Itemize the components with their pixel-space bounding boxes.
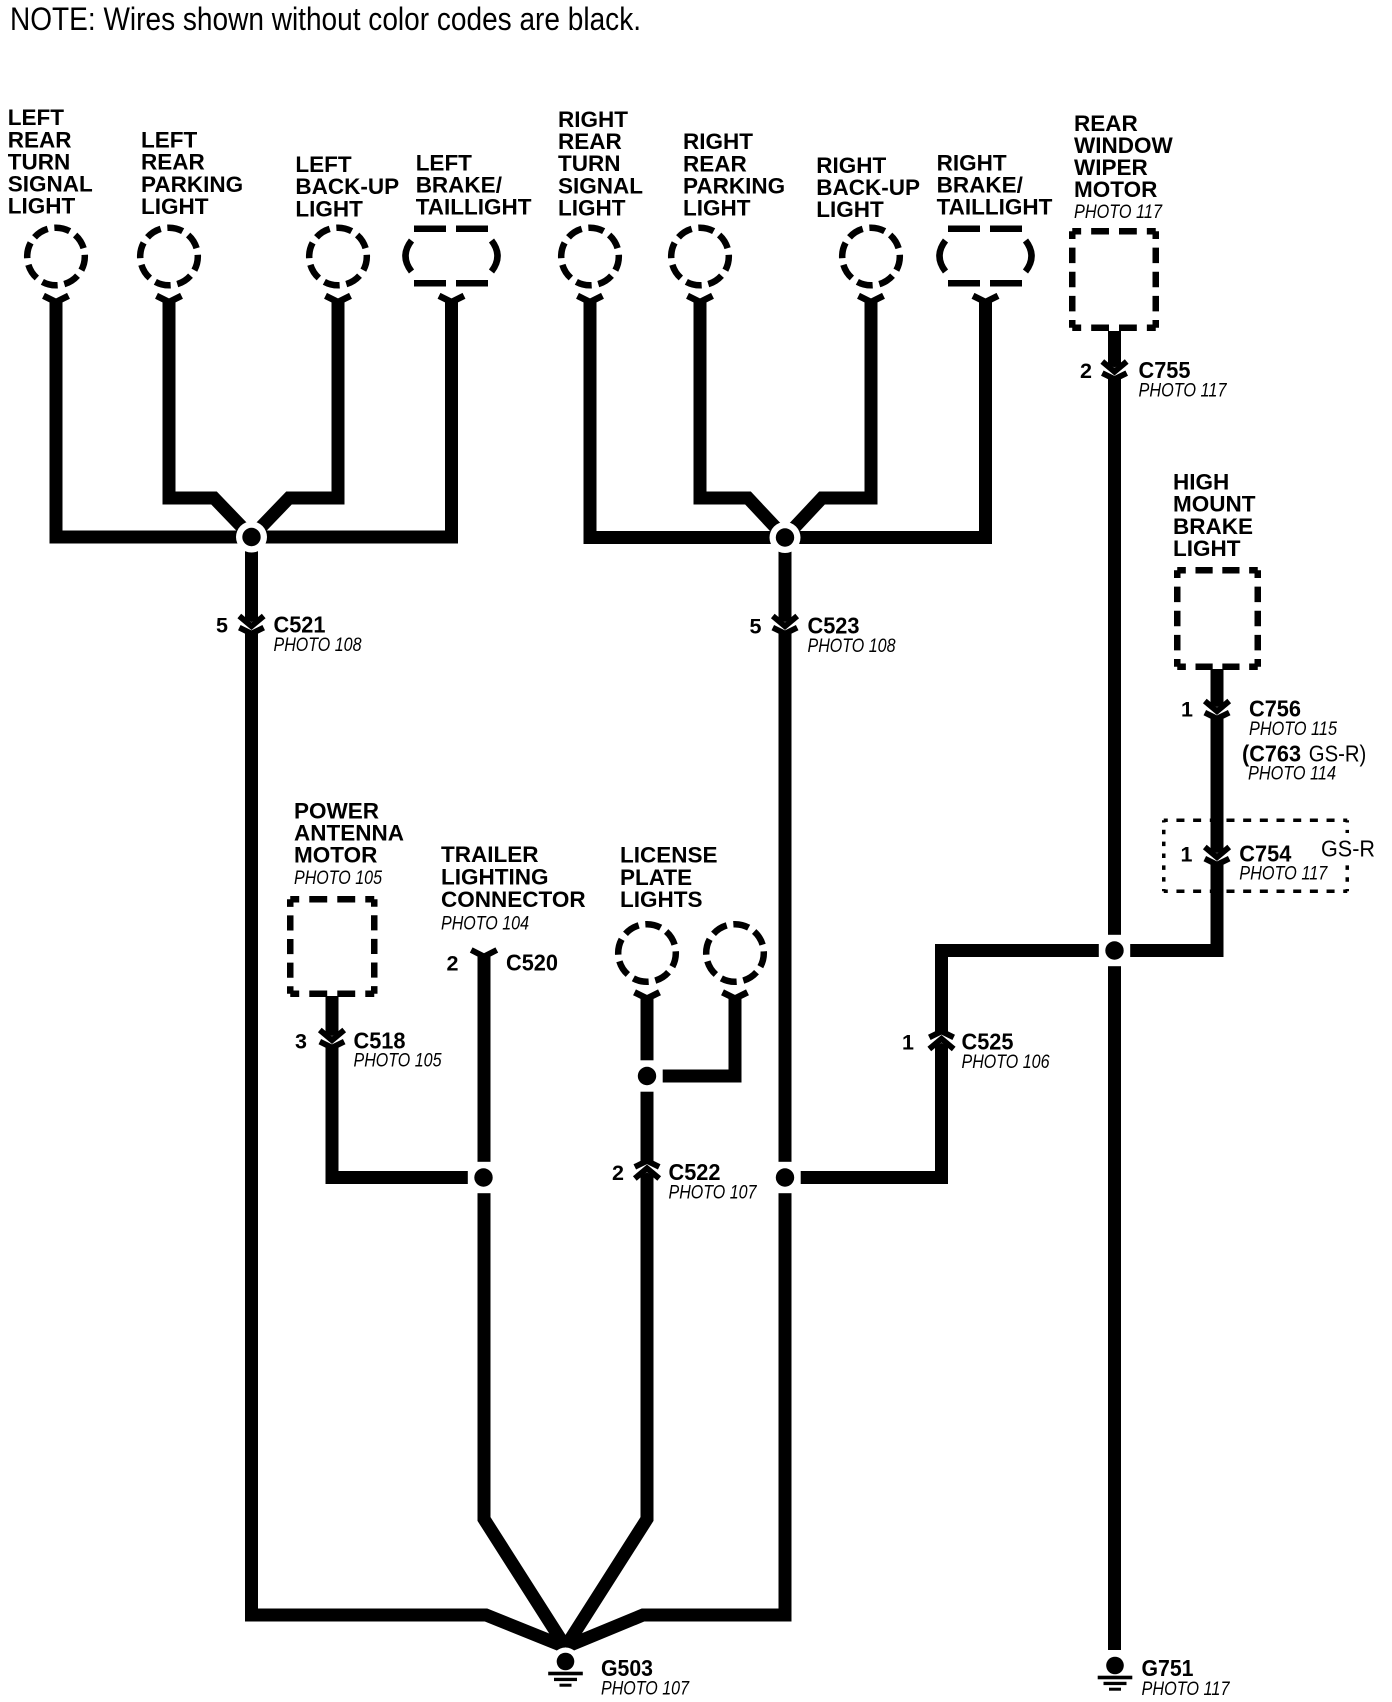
junction wiper-brake light wire [1099, 935, 1130, 966]
wire LEFT REAR TURN SIGNAL LIGHT / bus / LEFT BRAKE-TAILLIGHT [56, 299, 452, 537]
svg-text:PHOTO 107: PHOTO 107 [669, 1182, 758, 1204]
label C755 [1080, 357, 1227, 401]
junction C523-C525 wire [769, 1162, 800, 1193]
svg-text:TRAILER: TRAILER [441, 842, 539, 867]
wire C523 to G503 [566, 538, 786, 1648]
connector C522 symbol [633, 1161, 661, 1179]
label POWER ANTENNA MOTOR [294, 798, 404, 867]
wire RIGHT REAR TURN SIGNAL LIGHT / bus / RIGHT BRAKE-TAILLIGHT [590, 299, 986, 538]
power antenna motor box [290, 899, 374, 994]
GS-R option box (C754) [1164, 820, 1348, 891]
label PHOTO 117 (wiper motor) [1074, 201, 1163, 223]
high mount brake light box [1177, 570, 1258, 667]
terminal of LEFT BRAKE/TAILLIGHT [439, 296, 464, 302]
wire TRAILER LIGHTING CONNECTOR C520 to G503 [484, 956, 566, 1647]
connector C754 symbol [1203, 847, 1231, 865]
svg-text:3: 3 [295, 1029, 307, 1053]
lamp LICENSE PLATE LIGHT right [706, 924, 764, 982]
label RIGHT BACK-UP LIGHT [816, 153, 920, 222]
svg-text:1: 1 [1181, 842, 1193, 866]
wire RIGHT BACK-UP LIGHT to junction [785, 299, 871, 538]
wire LEFT BACK-UP LIGHT to junction [252, 299, 339, 537]
lamp LEFT REAR PARKING LIGHT [140, 228, 198, 286]
label C521 [216, 612, 362, 656]
lamp RIGHT BACK-UP LIGHT [842, 228, 900, 286]
svg-text:PHOTO 105: PHOTO 105 [354, 1050, 442, 1072]
svg-text:PHOTO 117: PHOTO 117 [1074, 201, 1163, 223]
lamp LICENSE PLATE LIGHT left [618, 924, 676, 982]
terminal of RIGHT REAR TURN SIGNAL LIGHT [578, 296, 603, 302]
svg-text:LIGHTS: LIGHTS [620, 887, 703, 912]
connector C521 symbol [238, 616, 266, 634]
svg-text:LIGHT: LIGHT [816, 197, 884, 222]
svg-text:CONNECTOR: CONNECTOR [441, 887, 586, 912]
svg-text:C520: C520 [506, 950, 558, 976]
terminal C520 (trailer lighting connector) [471, 950, 497, 957]
terminal of LEFT BACK-UP LIGHT [326, 296, 351, 302]
wire LEFT REAR PARKING LIGHT to junction [169, 299, 252, 537]
wire RIGHT REAR PARKING LIGHT to junction [700, 299, 785, 538]
wire POWER ANTENNA MOTOR via C518 to trailer wire [332, 996, 484, 1178]
label LEFT REAR PARKING LIGHT [141, 128, 243, 219]
label RIGHT BRAKE/TAILLIGHT [937, 150, 1053, 219]
wire C521 to G503 [252, 537, 566, 1647]
ground G503 symbol [548, 1648, 583, 1687]
label GS-R (C754 box) [1321, 836, 1375, 862]
connector C756 symbol [1203, 701, 1231, 719]
wire HIGH MOUNT BRAKE LIGHT via C525 to C523 wire [785, 669, 1217, 1178]
svg-text:LIGHT: LIGHT [8, 194, 76, 219]
white gap in GS-R box border for text [1314, 833, 1380, 861]
svg-text:LICENSE: LICENSE [620, 842, 718, 867]
terminal of RIGHT REAR PARKING LIGHT [688, 296, 713, 302]
svg-text:2: 2 [447, 952, 459, 976]
svg-text:PHOTO 107: PHOTO 107 [601, 1678, 690, 1700]
svg-text:PHOTO 114: PHOTO 114 [1248, 763, 1336, 785]
label HIGH MOUNT BRAKE LIGHT [1173, 470, 1256, 561]
svg-text:LIGHT: LIGHT [683, 196, 751, 221]
connector C755 symbol [1101, 362, 1129, 380]
label TRAILER LIGHTING CONNECTOR [441, 842, 586, 912]
svg-text:LIGHT: LIGHT [141, 194, 209, 219]
label LEFT REAR TURN SIGNAL LIGHT [8, 105, 93, 218]
svg-text:TAILLIGHT: TAILLIGHT [937, 195, 1053, 220]
lamp LEFT REAR TURN SIGNAL LIGHT [27, 228, 85, 286]
label C518 [295, 1027, 442, 1071]
svg-text:2: 2 [1080, 359, 1092, 383]
label PHOTO 104 (trailer connector) [441, 913, 529, 935]
svg-text:PHOTO 115: PHOTO 115 [1249, 718, 1337, 740]
label G751 [1142, 1655, 1231, 1700]
svg-text:1: 1 [1181, 698, 1193, 722]
svg-text:PHOTO 117: PHOTO 117 [1239, 863, 1328, 885]
svg-text:PHOTO 106: PHOTO 106 [962, 1051, 1050, 1073]
terminal license right lamp [723, 992, 748, 998]
svg-text:PHOTO 104: PHOTO 104 [441, 913, 529, 935]
svg-text:PHOTO 108: PHOTO 108 [808, 635, 896, 657]
terminal of LEFT REAR TURN SIGNAL LIGHT [44, 296, 69, 302]
junction left light group [236, 522, 267, 553]
terminal of LEFT REAR PARKING LIGHT [157, 296, 182, 302]
svg-text:LIGHT: LIGHT [558, 195, 626, 220]
label C522 [612, 1159, 757, 1203]
svg-text:PHOTO 105: PHOTO 105 [294, 867, 382, 889]
terminal of RIGHT BACK-UP LIGHT [859, 296, 884, 302]
label G503 [601, 1655, 690, 1700]
wire LICENSE PLATE LIGHT right to junction [647, 998, 735, 1076]
connector C518 symbol [318, 1030, 346, 1048]
label LICENSE PLATE LIGHTS [620, 842, 718, 912]
label LEFT BRAKE/TAILLIGHT [416, 150, 532, 219]
svg-text:NOTE: Wires shown without colo: NOTE: Wires shown without color codes ar… [10, 1, 641, 37]
terminal license left lamp [635, 992, 660, 998]
svg-text:PHOTO 117: PHOTO 117 [1139, 379, 1228, 401]
lamp LEFT BACK-UP LIGHT [309, 228, 367, 286]
label C756 [1181, 696, 1337, 740]
label RIGHT REAR TURN SIGNAL LIGHT [558, 107, 643, 220]
svg-text:LIGHTING: LIGHTING [441, 865, 549, 890]
label C520 [447, 950, 558, 976]
lamp RIGHT REAR TURN SIGNAL LIGHT [561, 228, 619, 286]
label LEFT BACK-UP LIGHT [295, 152, 399, 221]
junction C518-trailer wire [468, 1162, 499, 1193]
svg-text:GS-R: GS-R [1321, 836, 1375, 862]
svg-text:5: 5 [750, 615, 762, 639]
svg-text:TAILLIGHT: TAILLIGHT [416, 195, 532, 220]
wire REAR WINDOW WIPER MOTOR to G751 [1108, 331, 1121, 1650]
svg-text:PHOTO 108: PHOTO 108 [274, 634, 362, 656]
svg-text:1: 1 [902, 1031, 914, 1055]
label C523 [750, 613, 896, 657]
svg-text:PHOTO 117: PHOTO 117 [1142, 1678, 1231, 1700]
junction right light group [770, 522, 801, 553]
connector C525 symbol [928, 1031, 956, 1049]
terminal of RIGHT BRAKE/TAILLIGHT [973, 296, 998, 302]
rear window wiper motor box [1072, 231, 1156, 328]
svg-text:LIGHT: LIGHT [295, 196, 363, 221]
lamp RIGHT REAR PARKING LIGHT [671, 228, 729, 286]
wire LICENSE PLATE LIGHT left to G503 [566, 998, 648, 1647]
label RIGHT REAR PARKING LIGHT [683, 129, 785, 220]
svg-text:MOTOR: MOTOR [294, 843, 377, 868]
label C525 [902, 1029, 1050, 1073]
connector C523 symbol [771, 616, 799, 634]
lamp RIGHT BRAKE/TAILLIGHT [940, 229, 1032, 284]
lamp LEFT BRAKE/TAILLIGHT [406, 229, 498, 284]
svg-text:MOTOR: MOTOR [1074, 177, 1157, 202]
ground G751 symbol [1098, 1652, 1133, 1691]
svg-text:2: 2 [612, 1161, 624, 1185]
svg-text:5: 5 [216, 614, 228, 638]
junction license plate lights [631, 1060, 662, 1091]
note text [10, 1, 641, 37]
label REAR WINDOW WIPER MOTOR [1074, 111, 1173, 202]
svg-text:LIGHT: LIGHT [1173, 536, 1241, 561]
label C754 [1181, 840, 1329, 884]
svg-text:PLATE: PLATE [620, 865, 692, 890]
label PHOTO 105 (antenna motor) [294, 867, 382, 889]
label (C763 GS-R) [1242, 741, 1366, 785]
